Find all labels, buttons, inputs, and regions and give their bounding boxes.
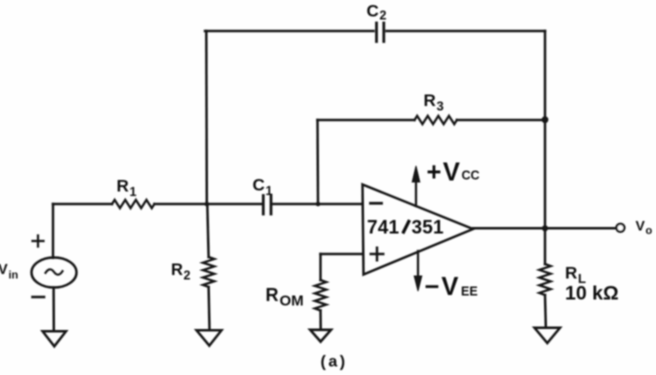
label -VEE xyxy=(425,273,478,301)
svg-text:C: C xyxy=(253,176,265,195)
label 741/351 xyxy=(367,218,444,239)
wire R3 row right lead xyxy=(457,119,545,122)
svg-text:in: in xyxy=(9,270,19,282)
label C1 xyxy=(253,176,273,199)
svg-text:−V: −V xyxy=(425,273,461,301)
wire output xyxy=(473,227,617,230)
label RL xyxy=(565,264,586,287)
capacitor C2 xyxy=(377,23,384,42)
resistor R1 xyxy=(112,200,154,208)
svg-text:o: o xyxy=(646,225,653,237)
svg-text:OM: OM xyxy=(280,293,304,310)
wire ROM vertical xyxy=(319,254,322,280)
resistor RL xyxy=(539,264,550,327)
svg-text:V: V xyxy=(636,218,646,234)
svg-text:2: 2 xyxy=(380,9,387,23)
supply +VCC arrow xyxy=(412,166,420,206)
label +VCC xyxy=(427,159,480,187)
wire right vertical rail xyxy=(544,31,547,264)
resistor R2 xyxy=(203,204,214,330)
label ROM xyxy=(266,285,304,310)
label R1 xyxy=(117,177,137,200)
svg-text:2: 2 xyxy=(184,269,191,283)
ground (Vin) xyxy=(43,331,66,346)
label C2 xyxy=(367,2,387,23)
label Vin xyxy=(0,262,19,282)
svg-text:1: 1 xyxy=(266,184,273,198)
terminal Vo circle xyxy=(616,224,624,232)
svg-text:R: R xyxy=(424,91,436,110)
svg-text:R: R xyxy=(565,264,577,283)
svg-text:741: 741 xyxy=(367,218,400,239)
op-amp plus pin mark xyxy=(371,248,383,261)
label R2 xyxy=(171,261,191,283)
svg-text:CC: CC xyxy=(462,169,480,183)
svg-text:10 kΩ: 10 kΩ xyxy=(565,283,619,305)
svg-text:+V: +V xyxy=(427,159,462,187)
wire main input left xyxy=(53,203,112,206)
ground (R2) xyxy=(197,330,222,345)
wire top feedback right segment xyxy=(387,30,546,33)
svg-text:V: V xyxy=(0,262,8,278)
op-amp U1 741/351 xyxy=(363,185,474,275)
voltage source Vin xyxy=(32,204,77,330)
capacitor C1 xyxy=(263,196,271,215)
svg-text:351: 351 xyxy=(412,218,445,239)
ground (RL) xyxy=(535,328,561,343)
op-amp minus pin mark xyxy=(371,202,382,205)
wire ROM to ground xyxy=(319,311,322,330)
ground (ROM) xyxy=(310,330,331,342)
label Vo xyxy=(636,218,653,238)
svg-text:(a): (a) xyxy=(321,354,348,371)
wire C1 to op-amp inverting input xyxy=(273,203,362,206)
resistor R3 xyxy=(415,116,457,124)
wire R3 row left lead xyxy=(318,119,415,122)
svg-text:3: 3 xyxy=(437,99,444,114)
svg-text:R: R xyxy=(266,285,279,305)
svg-text:R: R xyxy=(117,177,129,196)
node output/RL junction xyxy=(542,225,548,231)
svg-text:EE: EE xyxy=(461,285,478,299)
svg-text:1: 1 xyxy=(130,185,137,199)
label R3 xyxy=(424,91,444,114)
node R1/C2/R2 junction xyxy=(205,202,210,207)
wire op-amp non-inverting input xyxy=(321,253,364,256)
node R3/output rail junction xyxy=(542,116,549,123)
wire left feedback vertical xyxy=(205,31,208,204)
resistor ROM xyxy=(315,280,326,310)
supply -VEE arrow xyxy=(414,251,422,291)
wire top feedback left segment xyxy=(205,30,374,33)
wire R3 left vertical xyxy=(316,120,319,204)
node C1/R3 junction xyxy=(316,202,321,207)
wire R1 to C1 xyxy=(154,203,261,206)
svg-text:R: R xyxy=(171,261,183,279)
svg-text:C: C xyxy=(367,2,379,21)
